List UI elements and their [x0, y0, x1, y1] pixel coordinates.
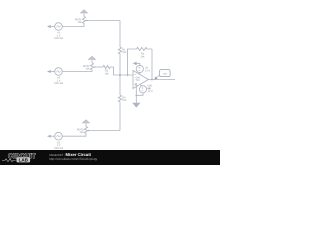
R4 labels: [140, 53, 145, 59]
wire R2 to summing node: [111, 67, 133, 75]
wire R3 down to bottom input: [119, 104, 121, 131]
svg-text:12 V: 12 V: [148, 90, 153, 93]
node IN2 flag arrow: [47, 70, 55, 73]
resistor R1: [118, 47, 121, 55]
source V1 sine: [55, 23, 63, 31]
V2 value labels: [54, 77, 64, 86]
R2 labels: [104, 70, 109, 76]
junction V5-ground wire: [136, 95, 138, 97]
junction feedback-output: [151, 79, 153, 81]
POT2 top terminal up-arrow flag: [88, 56, 95, 60]
POT1 labels: [75, 18, 82, 24]
POT3 top terminal up-arrow flag: [82, 120, 89, 124]
wire V1 to POT1: [62, 25, 84, 27]
CircuitLab logo wordmark: [2, 153, 36, 163]
svg-text:1000 Hz: 1000 Hz: [54, 147, 64, 150]
OA1 designator below output: [148, 84, 154, 90]
svg-text:1000 Hz: 1000 Hz: [54, 37, 64, 40]
node IN3 flag arrow: [47, 135, 55, 138]
wire rail lower segment: [119, 75, 121, 95]
footer bar: [0, 150, 220, 165]
svg-text:out: out: [163, 73, 167, 76]
potentiometer POT2: [90, 61, 96, 72]
node OUT flag: [154, 70, 170, 80]
wire feedback right leg: [151, 49, 153, 80]
V1 value labels: [54, 32, 64, 41]
svg-text:http://circuitlab.com/c/5zfw6v: http://circuitlab.com/c/5zfw6vpwqy: [49, 157, 98, 161]
R1 labels: [122, 48, 127, 54]
potentiometer POT1: [82, 14, 88, 25]
R3 labels: [122, 96, 127, 102]
wire feedback left leg: [128, 49, 137, 75]
op-amp OA1: [133, 71, 149, 89]
resistor R3: [118, 95, 121, 104]
svg-text:1000 Hz: 1000 Hz: [54, 82, 64, 85]
logo LAB badge: [17, 157, 31, 162]
wire POT3 wiper to rail: [90, 130, 120, 132]
node IN1 flag arrow: [47, 25, 55, 28]
junction feedback tap: [127, 74, 129, 76]
potentiometer POT3: [84, 124, 90, 135]
POT3 labels: [77, 128, 84, 134]
source V2 sine: [55, 68, 63, 76]
wire R1 to summing node: [119, 55, 121, 75]
ground: [133, 103, 140, 107]
wire POT2 wiper to R2: [96, 66, 103, 68]
source V3 sine: [55, 132, 63, 140]
svg-text:LAB: LAB: [19, 158, 29, 163]
V5 labels: [148, 87, 153, 93]
POT1 top terminal up-arrow flag: [80, 10, 87, 14]
V3 value labels: [54, 141, 64, 150]
junction summing node rail: [119, 74, 121, 76]
wire V2 to POT2: [62, 70, 92, 73]
svg-text:TL0: TL0: [135, 79, 140, 82]
OA1 label inside: [135, 77, 141, 83]
V4 labels: [145, 67, 150, 73]
source V4 positive supply: [136, 65, 143, 74]
wire POT1 wiper to rail: [88, 20, 120, 22]
wire output: [149, 79, 176, 81]
POT2 labels: [83, 65, 90, 71]
resistor R2: [103, 65, 111, 68]
wire op-amp V- pin to ground: [135, 83, 137, 103]
svg-text:12 V: 12 V: [145, 70, 150, 73]
supply flag arrow above V4: [133, 62, 140, 66]
logo resistor squiggle: [2, 159, 16, 162]
source V5 negative supply: [136, 84, 146, 95]
wire rail top segment: [119, 21, 121, 48]
wire V3 to POT3: [62, 135, 86, 137]
resistor R4: [137, 47, 153, 50]
